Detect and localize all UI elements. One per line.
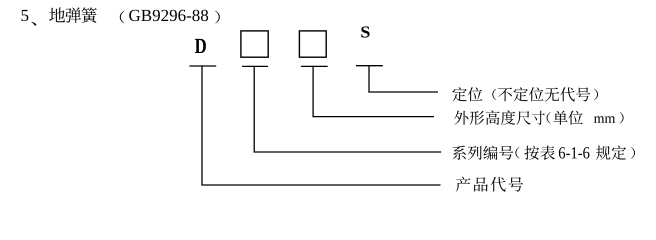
label mm unit — [594, 116, 615, 123]
label row1 close paren — [594, 89, 598, 100]
tick under box 2 — [301, 65, 328, 67]
tick under D — [189, 65, 216, 67]
title ideographic comma — [31, 22, 36, 26]
label row3 close paren — [631, 147, 635, 158]
box 1 series number — [241, 31, 268, 57]
box 2 height dimension — [299, 31, 326, 57]
wire to label 产品代号 — [201, 184, 440, 186]
title text 地弹簧 — [49, 7, 97, 22]
label 定位 — [452, 87, 482, 101]
label 按表 — [524, 146, 555, 160]
wire down from box 2 — [312, 66, 314, 117]
label 产品代号 — [456, 177, 523, 192]
label 单位 — [553, 111, 583, 125]
label row3 open paren — [515, 147, 519, 158]
wire down from S — [368, 65, 370, 92]
label row1 open paren — [492, 89, 496, 100]
wire to label 系列编号 — [254, 151, 442, 153]
label 系列编号 — [452, 145, 513, 159]
title open paren — [120, 11, 125, 24]
tick under S — [356, 65, 383, 67]
wire down from box 1 — [253, 66, 255, 152]
label row2 close paren — [620, 112, 624, 123]
label table ref 6-1-6 — [559, 147, 590, 158]
title standard number GB9296-88 — [129, 10, 208, 21]
letter S positioning code — [361, 26, 369, 37]
label 寸 — [532, 111, 545, 125]
title close paren — [215, 11, 220, 24]
wire to label 外形高度尺寸 — [313, 116, 435, 118]
wire down from D — [201, 65, 203, 185]
wire to label 定位 — [368, 91, 438, 93]
label 不定位无代号 — [498, 87, 590, 101]
tick under box 1 — [242, 65, 268, 67]
label row2 open paren — [547, 112, 551, 123]
label 规定 — [596, 146, 626, 160]
title number 5 — [21, 10, 28, 21]
letter D product code — [195, 39, 206, 53]
label 外形高度尺 — [454, 110, 531, 124]
